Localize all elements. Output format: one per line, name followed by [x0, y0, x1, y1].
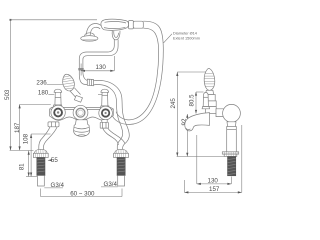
label G3/4 right — [101, 181, 118, 188]
svg-text:60 ~ 300: 60 ~ 300 — [70, 190, 95, 197]
svg-text:108: 108 — [23, 133, 30, 144]
svg-text:157: 157 — [209, 186, 220, 193]
note leader line (hose) — [164, 34, 172, 43]
side lever collar — [206, 90, 214, 94]
svg-text:55: 55 — [51, 157, 58, 164]
right leg threaded shank — [117, 158, 125, 187]
left leg threaded shank — [37, 158, 45, 187]
svg-text:Diameter Ø14: Diameter Ø14 — [173, 32, 198, 36]
left valve boss — [51, 105, 65, 119]
shower hose (loop right and down to diverter) — [112, 21, 163, 124]
handset head (spray face ellipse) — [81, 33, 98, 41]
dimension 92 — [186, 114, 188, 157]
left support tube — [39, 127, 57, 150]
svg-text:245: 245 — [170, 98, 177, 109]
right leg flange — [114, 149, 129, 157]
label G3/4 left — [44, 182, 64, 189]
diverter ceramic lever (teardrop, hatched) — [63, 74, 75, 91]
side column — [227, 127, 237, 152]
cradle ring — [112, 31, 120, 40]
cradle arm union nut — [87, 79, 93, 86]
handset ferrule — [129, 21, 134, 29]
side spout — [185, 113, 210, 131]
side valve body — [204, 101, 216, 114]
side cross handle (edge-on, in front) — [202, 93, 209, 109]
svg-text:503: 503 — [4, 89, 11, 100]
svg-text:81: 81 — [18, 163, 25, 170]
tube from hose nut to right leg — [103, 128, 125, 145]
side threaded shank — [228, 157, 236, 176]
diverter ball — [223, 104, 241, 122]
handset grip (horizontal in cradle) — [101, 19, 129, 30]
handset neck arch — [86, 24, 101, 36]
dimension 187 vertical — [19, 104, 51, 150]
dimension 81 vertical — [26, 151, 37, 177]
side lever (ceramic teardrop, hatched) — [204, 69, 215, 91]
left leg flange — [33, 149, 48, 157]
diverter ball collar — [227, 122, 236, 128]
dimension 55 — [48, 159, 52, 161]
deck extension (right figure) — [177, 156, 224, 158]
left valve collar — [53, 105, 62, 108]
dimension 236 — [47, 83, 63, 85]
lever stem — [70, 88, 83, 103]
arm pipe collar fitting — [79, 68, 84, 70]
side lever nut — [205, 95, 215, 101]
dimension 245 — [176, 72, 206, 157]
svg-text:Extent 1500mm: Extent 1500mm — [173, 36, 200, 40]
center diverter boss — [73, 105, 88, 120]
left cross handle — [54, 89, 62, 105]
note text Diameter/Extent — [173, 32, 200, 41]
dimension 130 (right figure) — [197, 135, 232, 185]
svg-text:180: 180 — [38, 89, 49, 96]
svg-text:80.5: 80.5 — [189, 94, 196, 107]
dimension 130 (left figure, cradle offset) — [81, 56, 114, 76]
dimension 180 — [48, 93, 103, 95]
svg-text:236: 236 — [36, 80, 47, 87]
hose connector — [133, 21, 143, 28]
spout (front view) — [74, 120, 90, 137]
right valve boss — [99, 106, 113, 120]
svg-text:130: 130 — [208, 177, 219, 184]
dimension 157 — [184, 125, 241, 193]
right riser pipe (arcs over handle, down to right leg) — [94, 80, 130, 149]
right valve collar — [100, 106, 109, 109]
hose terminal nut (below right valve) — [100, 120, 108, 128]
dimension 108 vertical — [30, 134, 51, 177]
valve to ball connector — [216, 109, 224, 117]
cradle arm (pipe from ring down to body) — [79, 40, 118, 85]
body bar — [50, 108, 114, 121]
dimension 60~300 — [41, 189, 123, 197]
side flange — [222, 152, 238, 157]
dimension 80.5 — [195, 92, 204, 114]
svg-text:130: 130 — [96, 64, 107, 71]
right cross handle — [101, 89, 109, 106]
svg-text:187: 187 — [14, 122, 21, 133]
dimension 503 vertical line — [9, 19, 97, 151]
left body nut — [48, 122, 59, 127]
